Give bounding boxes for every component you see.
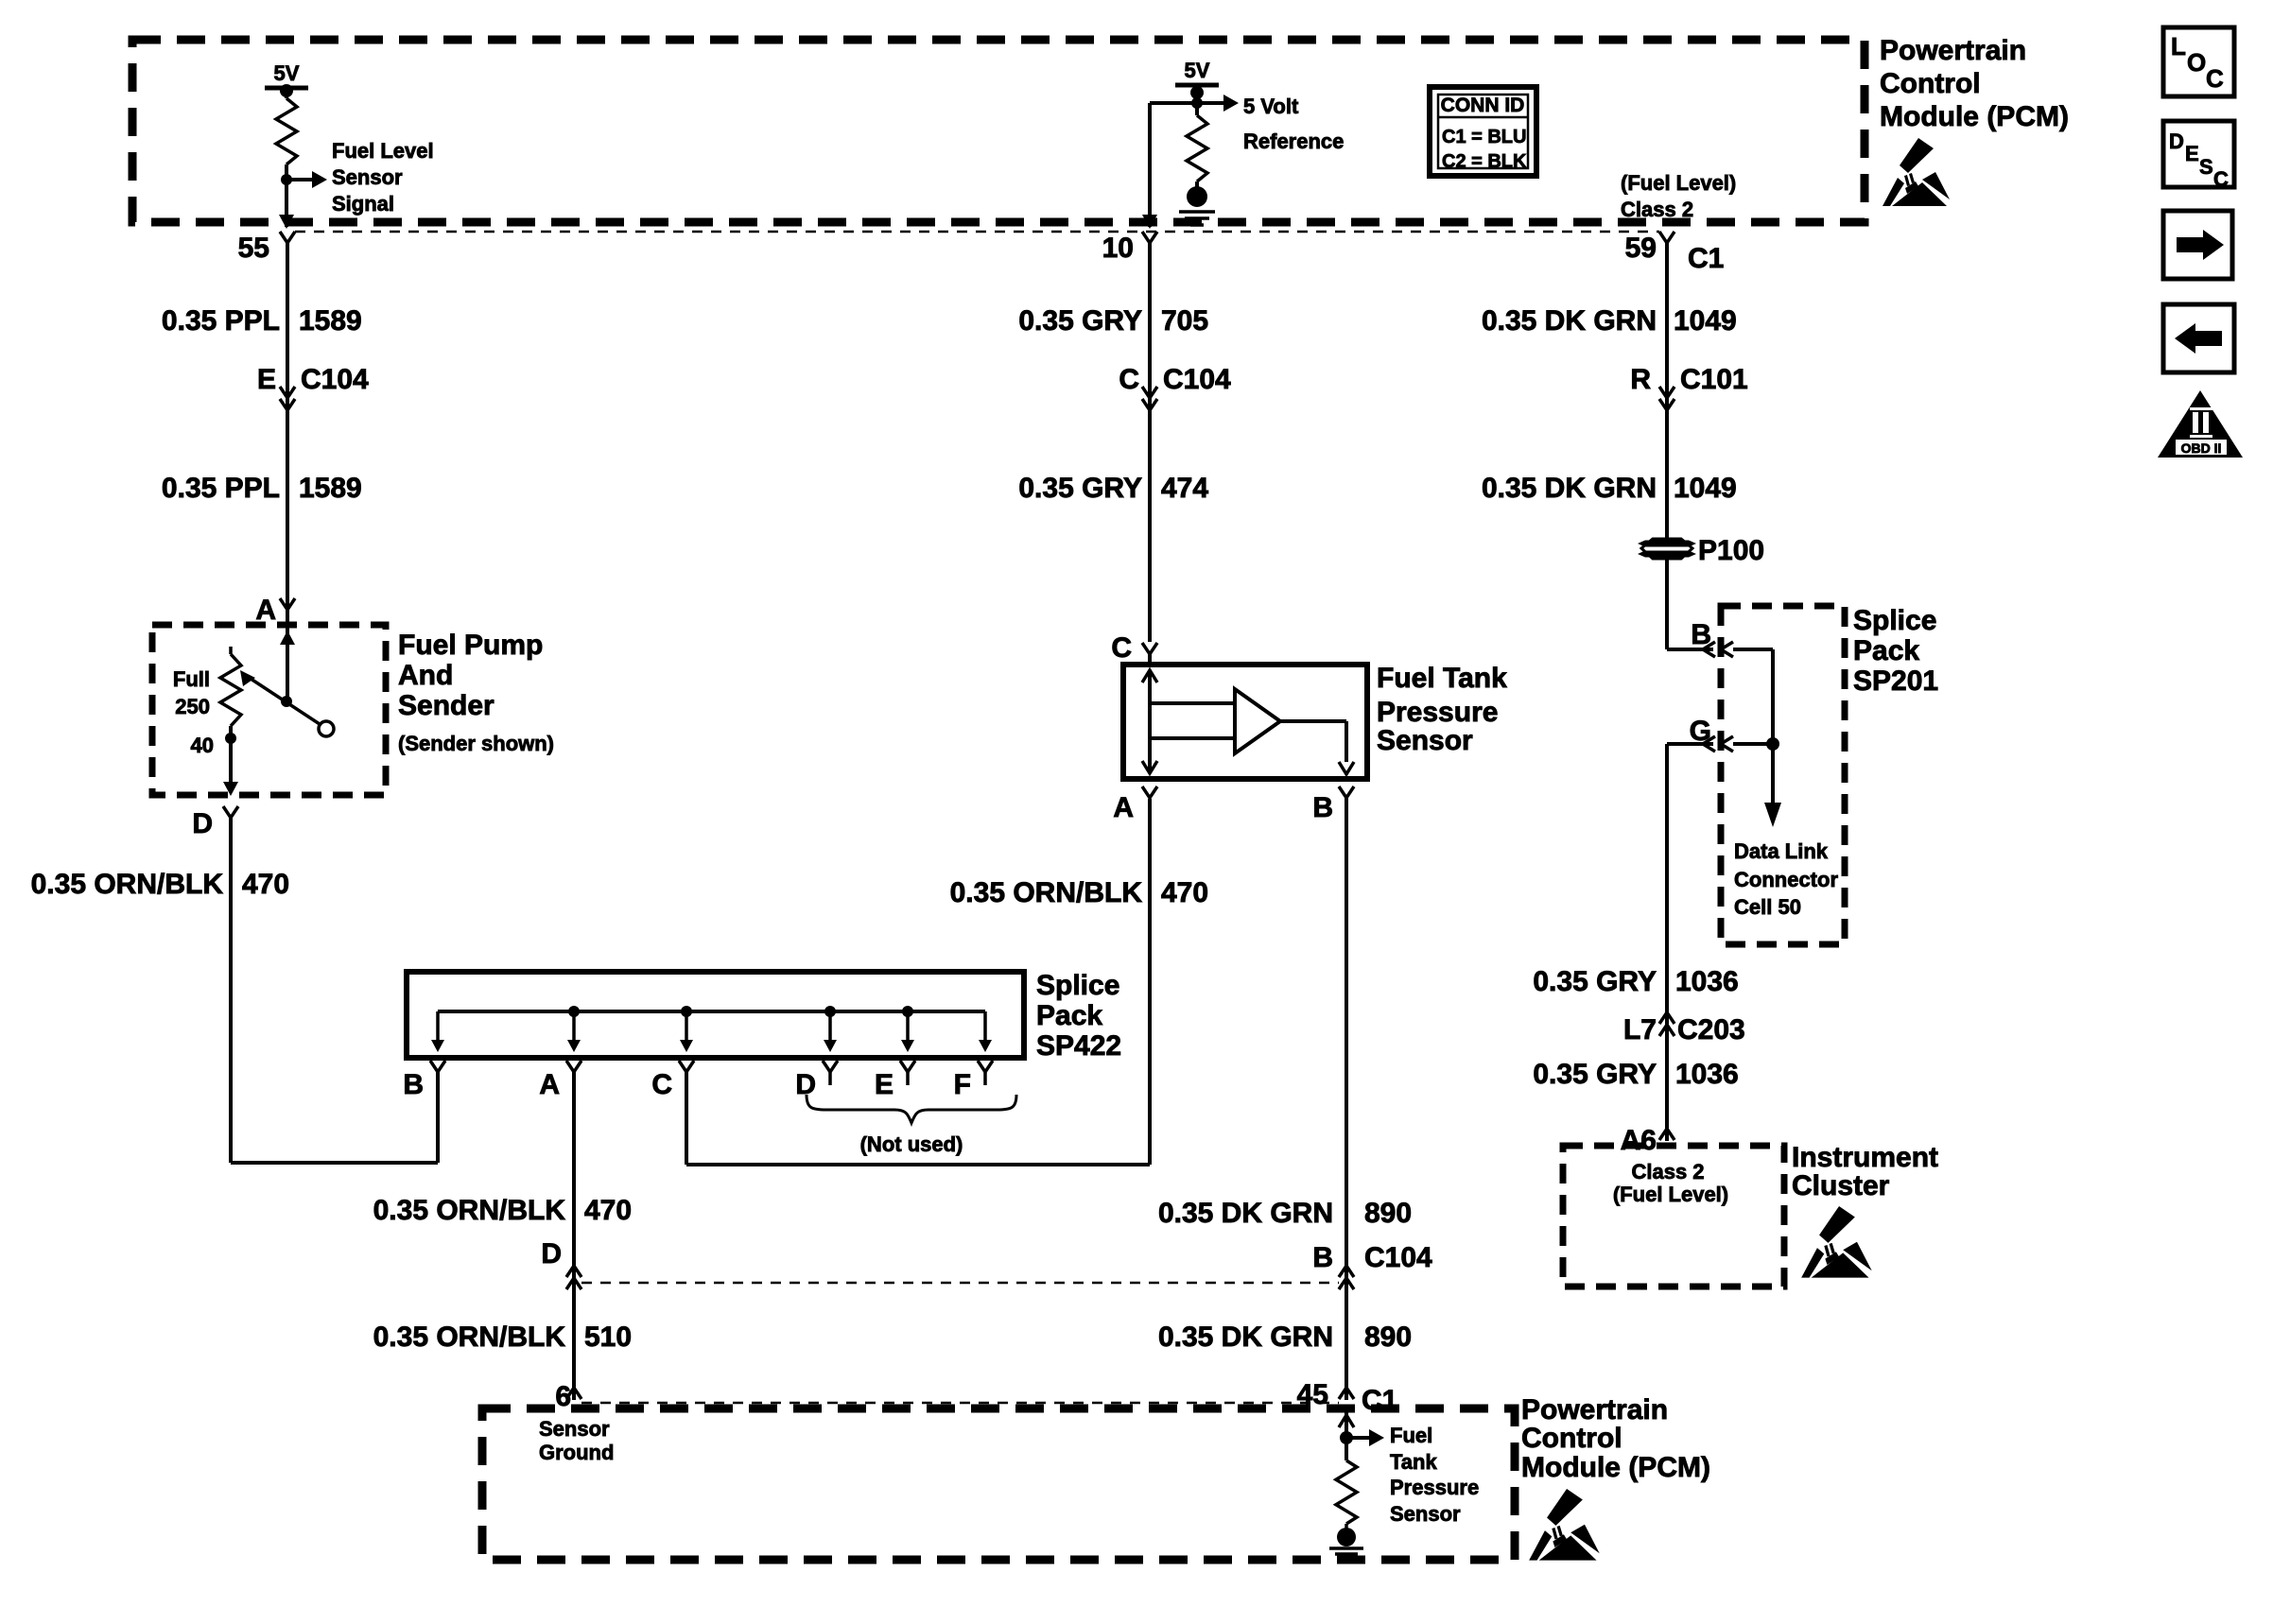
svg-text:D: D: [2169, 130, 2184, 153]
svg-text:S: S: [2199, 155, 2213, 179]
svg-text:Tank: Tank: [1390, 1450, 1437, 1474]
svg-text:Class 2: Class 2: [1631, 1160, 1704, 1183]
svg-text:B: B: [403, 1069, 424, 1100]
svg-text:5 Volt: 5 Volt: [1243, 95, 1299, 118]
svg-text:B: B: [1691, 619, 1711, 650]
svg-text:O: O: [2187, 48, 2206, 77]
svg-text:1036: 1036: [1675, 966, 1739, 997]
svg-text:0.35 DK GRN: 0.35 DK GRN: [1482, 473, 1657, 504]
svg-text:D: D: [541, 1238, 562, 1270]
svg-text:705: 705: [1161, 305, 1208, 337]
svg-text:40: 40: [191, 734, 214, 757]
svg-text:0.35 ORN/BLK: 0.35 ORN/BLK: [950, 877, 1143, 908]
svg-text:1589: 1589: [299, 305, 362, 337]
svg-text:A: A: [1113, 792, 1134, 823]
svg-text:Fuel Pump: Fuel Pump: [398, 630, 543, 661]
svg-text:C2 = BLK: C2 = BLK: [1442, 151, 1527, 172]
svg-text:C: C: [2213, 167, 2229, 191]
svg-text:Control: Control: [1880, 68, 1981, 99]
svg-text:59: 59: [1625, 233, 1657, 264]
svg-text:0.35 PPL: 0.35 PPL: [162, 305, 280, 337]
svg-text:(Not used): (Not used): [860, 1132, 963, 1156]
svg-text:Sender: Sender: [398, 690, 495, 721]
svg-text:Pack: Pack: [1853, 635, 1919, 666]
svg-text:A: A: [539, 1069, 560, 1100]
svg-text:Module (PCM): Module (PCM): [1521, 1452, 1710, 1483]
svg-text:L7: L7: [1623, 1014, 1657, 1045]
svg-text:Cell 50: Cell 50: [1734, 895, 1801, 919]
svg-text:Powertrain: Powertrain: [1521, 1394, 1668, 1425]
svg-text:Pack: Pack: [1036, 1000, 1102, 1031]
svg-text:0.35 DK GRN: 0.35 DK GRN: [1158, 1322, 1333, 1353]
svg-text:0.35 ORN/BLK: 0.35 ORN/BLK: [373, 1195, 566, 1226]
svg-text:Cluster: Cluster: [1792, 1170, 1890, 1201]
svg-text:Ground: Ground: [539, 1441, 614, 1464]
svg-text:890: 890: [1364, 1322, 1412, 1353]
svg-text:0.35 DK GRN: 0.35 DK GRN: [1482, 305, 1657, 337]
svg-text:1036: 1036: [1675, 1059, 1739, 1090]
svg-text:Sensor: Sensor: [332, 165, 403, 189]
svg-text:C104: C104: [1364, 1242, 1432, 1273]
svg-text:Sensor: Sensor: [1390, 1502, 1461, 1526]
svg-text:Pressure: Pressure: [1390, 1476, 1479, 1499]
svg-text:1049: 1049: [1674, 305, 1737, 337]
svg-text:(Sender shown): (Sender shown): [398, 732, 554, 755]
svg-text:Instrument: Instrument: [1792, 1142, 1938, 1173]
svg-text:C101: C101: [1680, 364, 1748, 395]
svg-text:Module (PCM): Module (PCM): [1880, 101, 2069, 132]
svg-text:Sensor: Sensor: [1377, 725, 1473, 756]
svg-text:Reference: Reference: [1243, 130, 1344, 153]
svg-text:Splice: Splice: [1853, 605, 1936, 636]
svg-text:C: C: [651, 1069, 672, 1100]
svg-text:CONN ID: CONN ID: [1441, 95, 1525, 116]
svg-text:A: A: [255, 595, 276, 626]
svg-text:5V: 5V: [1185, 59, 1210, 82]
svg-text:E: E: [875, 1069, 894, 1100]
svg-text:10: 10: [1102, 233, 1134, 264]
svg-text:510: 510: [584, 1322, 632, 1353]
svg-text:R: R: [1630, 364, 1651, 395]
svg-text:Fuel Tank: Fuel Tank: [1377, 663, 1507, 694]
svg-text:474: 474: [1161, 473, 1208, 504]
svg-text:45: 45: [1297, 1379, 1328, 1410]
svg-text:Splice: Splice: [1036, 970, 1119, 1001]
svg-text:F: F: [954, 1069, 971, 1100]
svg-text:G: G: [1690, 716, 1711, 747]
svg-text:C: C: [1119, 364, 1139, 395]
svg-text:Fuel: Fuel: [1390, 1424, 1432, 1447]
svg-text:P100: P100: [1698, 535, 1764, 566]
svg-text:55: 55: [238, 233, 269, 264]
svg-text:6: 6: [555, 1381, 571, 1412]
svg-text:0.35 GRY: 0.35 GRY: [1533, 966, 1657, 997]
svg-text:C: C: [1111, 632, 1132, 664]
svg-text:A6: A6: [1621, 1125, 1657, 1156]
svg-text:B: B: [1312, 1242, 1333, 1273]
svg-text:C104: C104: [1163, 364, 1231, 395]
svg-text:470: 470: [1161, 877, 1208, 908]
svg-text:Data Link: Data Link: [1734, 839, 1829, 863]
svg-text:Connector: Connector: [1734, 868, 1838, 891]
svg-text:L: L: [2171, 32, 2186, 60]
svg-text:250: 250: [175, 695, 210, 718]
svg-text:E: E: [2185, 142, 2199, 165]
svg-text:890: 890: [1364, 1198, 1412, 1229]
svg-text:0.35 GRY: 0.35 GRY: [1018, 305, 1142, 337]
svg-text:C1: C1: [1688, 243, 1724, 274]
svg-text:C203: C203: [1677, 1014, 1745, 1045]
svg-text:Sensor: Sensor: [539, 1417, 610, 1441]
svg-text:Signal: Signal: [332, 192, 394, 216]
svg-text:SP422: SP422: [1036, 1030, 1121, 1062]
svg-text:0.35 GRY: 0.35 GRY: [1018, 473, 1142, 504]
svg-text:Powertrain: Powertrain: [1880, 35, 2026, 66]
svg-text:(Fuel Level): (Fuel Level): [1621, 171, 1736, 195]
svg-text:E: E: [257, 364, 276, 395]
svg-text:470: 470: [584, 1195, 632, 1226]
svg-text:0.35 ORN/BLK: 0.35 ORN/BLK: [373, 1322, 566, 1353]
svg-text:5V: 5V: [274, 61, 300, 85]
svg-text:0.35 GRY: 0.35 GRY: [1533, 1059, 1657, 1090]
svg-text:B: B: [1312, 792, 1333, 823]
svg-text:(Fuel Level): (Fuel Level): [1613, 1183, 1728, 1206]
svg-text:Fuel Level: Fuel Level: [332, 139, 434, 163]
svg-text:0.35 DK GRN: 0.35 DK GRN: [1158, 1198, 1333, 1229]
svg-text:Pressure: Pressure: [1377, 697, 1498, 728]
svg-text:1049: 1049: [1674, 473, 1737, 504]
svg-text:SP201: SP201: [1853, 665, 1938, 697]
svg-text:OBD II: OBD II: [2181, 441, 2222, 456]
svg-text:0.35 ORN/BLK: 0.35 ORN/BLK: [31, 869, 224, 900]
svg-text:C: C: [2206, 64, 2224, 93]
svg-text:C104: C104: [301, 364, 369, 395]
svg-text:Class 2: Class 2: [1621, 198, 1693, 221]
svg-text:C1: C1: [1362, 1385, 1397, 1416]
svg-text:470: 470: [242, 869, 289, 900]
svg-text:0.35 PPL: 0.35 PPL: [162, 473, 280, 504]
svg-text:Full: Full: [173, 667, 210, 691]
svg-text:Control: Control: [1521, 1423, 1622, 1454]
svg-text:1589: 1589: [299, 473, 362, 504]
svg-text:C1 = BLU: C1 = BLU: [1442, 127, 1526, 147]
svg-text:D: D: [192, 808, 213, 839]
svg-text:And: And: [398, 660, 453, 691]
